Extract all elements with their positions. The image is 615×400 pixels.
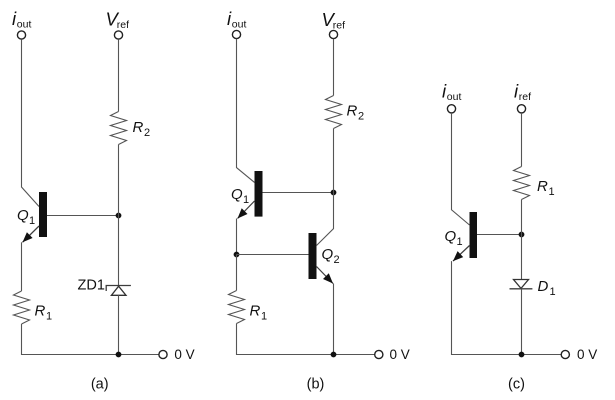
svg-text:R: R: [250, 303, 261, 320]
svg-text:out: out: [232, 19, 247, 31]
svg-text:ZD1: ZD1: [78, 278, 105, 294]
svg-text:0 V: 0 V: [577, 347, 597, 362]
terminal V_ref (a): [114, 31, 122, 39]
svg-text:1: 1: [457, 236, 463, 248]
wire Q1 base to node (c): [477, 234, 522, 236]
svg-text:1: 1: [243, 194, 249, 206]
Q1 emitter with arrow (a): [23, 226, 40, 242]
wire Q1 emitter down to R1 (a): [21, 242, 23, 291]
svg-text:1: 1: [46, 311, 52, 323]
svg-text:ref: ref: [519, 91, 531, 103]
wire node down to R1 (b): [236, 255, 238, 291]
svg-text:0 V: 0 V: [390, 347, 410, 362]
junction bottom rail (b): [331, 352, 337, 358]
junction Q1 emitter / Q2 base / R1 (b): [234, 252, 240, 258]
junction Q1 base / R1 / D1 (c): [519, 232, 525, 238]
svg-text:2: 2: [144, 127, 150, 139]
terminal i_out (a): [17, 31, 25, 39]
label R2 (a): [133, 119, 151, 139]
svg-text:R: R: [537, 178, 548, 195]
Q1 emitter with arrow (c): [453, 246, 470, 262]
wire D1 to 0V rail (c): [521, 289, 523, 355]
resistor R1 (b): [229, 291, 245, 324]
svg-text:out: out: [447, 91, 462, 103]
label R1 (b): [250, 303, 268, 323]
wire node to Q2 base (b): [237, 254, 309, 256]
svg-text:(c): (c): [508, 377, 525, 393]
label i_out (b): [227, 8, 246, 31]
label R1 (c): [537, 178, 555, 198]
wire ZD1 to 0V rail (a): [118, 295, 120, 354]
svg-text:ref: ref: [333, 20, 345, 32]
svg-text:out: out: [17, 19, 32, 31]
label Q1 (b): [231, 186, 249, 206]
svg-text:Q: Q: [445, 228, 457, 245]
circuit (b): two-transistor current sink: [227, 8, 410, 393]
terminal i_ref (c): [517, 105, 525, 113]
svg-text:1: 1: [261, 311, 267, 323]
terminal i_out (c): [447, 105, 455, 113]
label i_out (c): [442, 81, 461, 104]
svg-text:2: 2: [358, 111, 364, 123]
label R2 (b): [347, 103, 365, 123]
wire R1 to 0V rail (a): [22, 324, 159, 355]
svg-text:R: R: [347, 103, 358, 120]
svg-text:1: 1: [550, 286, 556, 298]
terminal 0V (b): [375, 350, 383, 358]
svg-text:R: R: [35, 303, 46, 320]
resistor R2 (a): [111, 112, 127, 145]
terminal 0V (c): [561, 350, 569, 358]
svg-text:Q: Q: [322, 246, 334, 263]
transistor Q1 (a) base bar: [39, 192, 47, 237]
label V_ref (b): [322, 9, 346, 32]
svg-text:(a): (a): [91, 377, 109, 393]
wire Q2 emitter down to 0V rail (b): [333, 284, 335, 355]
junction bottom rail (a): [116, 352, 122, 358]
resistor R1 (a): [14, 291, 30, 324]
svg-text:D: D: [538, 278, 549, 295]
label D1 (c): [538, 278, 556, 298]
wire R1 down to node (c): [521, 200, 523, 235]
svg-text:2: 2: [334, 254, 340, 266]
wire Q1 base to node (a): [47, 215, 119, 217]
wire node down to zener ZD1 (a): [118, 216, 120, 286]
terminal i_out (b): [232, 30, 240, 38]
wire Q1 base to node (b): [263, 192, 334, 194]
transistor Q1 (c) base bar: [470, 212, 478, 258]
wire V_ref down to R2 (b): [333, 39, 335, 96]
junction Q1 base / R2 / Q2 collector (b): [331, 190, 337, 196]
svg-text:Q: Q: [231, 186, 243, 203]
wire V_ref down to R2 (a): [118, 39, 120, 111]
terminal 0V (a): [159, 350, 167, 358]
terminal V_ref (b): [329, 30, 337, 38]
svg-text:1: 1: [29, 215, 35, 227]
label i_ref (c): [514, 81, 531, 104]
label V_ref (a): [106, 9, 130, 32]
Q1 emitter with arrow (b): [238, 201, 255, 219]
wire i_out down to Q1 collector (b): [237, 39, 255, 183]
label R1 (a): [35, 303, 53, 323]
junction Q1 base / zener node (a): [116, 213, 122, 219]
label Q1 (c): [445, 228, 463, 248]
label i_out (a): [12, 8, 31, 31]
resistor R1 (c): [514, 167, 530, 200]
svg-text:0 V: 0 V: [174, 347, 194, 362]
wire R2 down to node (a): [118, 145, 120, 216]
label Q2 (b): [322, 246, 340, 266]
resistor R2 (b): [326, 96, 342, 129]
wire Q1 emitter to 0V rail (c): [452, 261, 561, 354]
wire Q1 emitter down to node (b): [236, 219, 238, 255]
wire R1 to 0V rail (b): [237, 324, 375, 355]
label Q1 (a): [17, 207, 35, 227]
Q2 emitter with arrow (b): [317, 267, 334, 284]
circuit (c): current mirror reference with diode D1: [442, 81, 597, 393]
wire i_ref down to R1 (c): [521, 113, 523, 167]
transistor Q1 (b) base bar: [255, 171, 263, 217]
wire i_out down to Q1 collector (c): [452, 113, 470, 225]
svg-text:1: 1: [549, 186, 555, 198]
circuit (a): transistor current sink with zener reference: [12, 8, 195, 393]
zener diode ZD1 (a): [106, 286, 131, 296]
wire i_out down to Q1 collector (a): [22, 39, 40, 206]
svg-text:ref: ref: [117, 19, 129, 31]
transistor Q2 (b) base bar: [309, 233, 317, 279]
wire node down to D1 (c): [521, 235, 523, 280]
diode D1 (c): [510, 280, 533, 289]
svg-text:(b): (b): [307, 377, 325, 393]
junction bottom rail (c): [519, 352, 525, 358]
svg-text:R: R: [133, 119, 144, 136]
wire R2 down through node to Q2 collector (b): [317, 129, 334, 246]
svg-text:Q: Q: [17, 207, 29, 224]
